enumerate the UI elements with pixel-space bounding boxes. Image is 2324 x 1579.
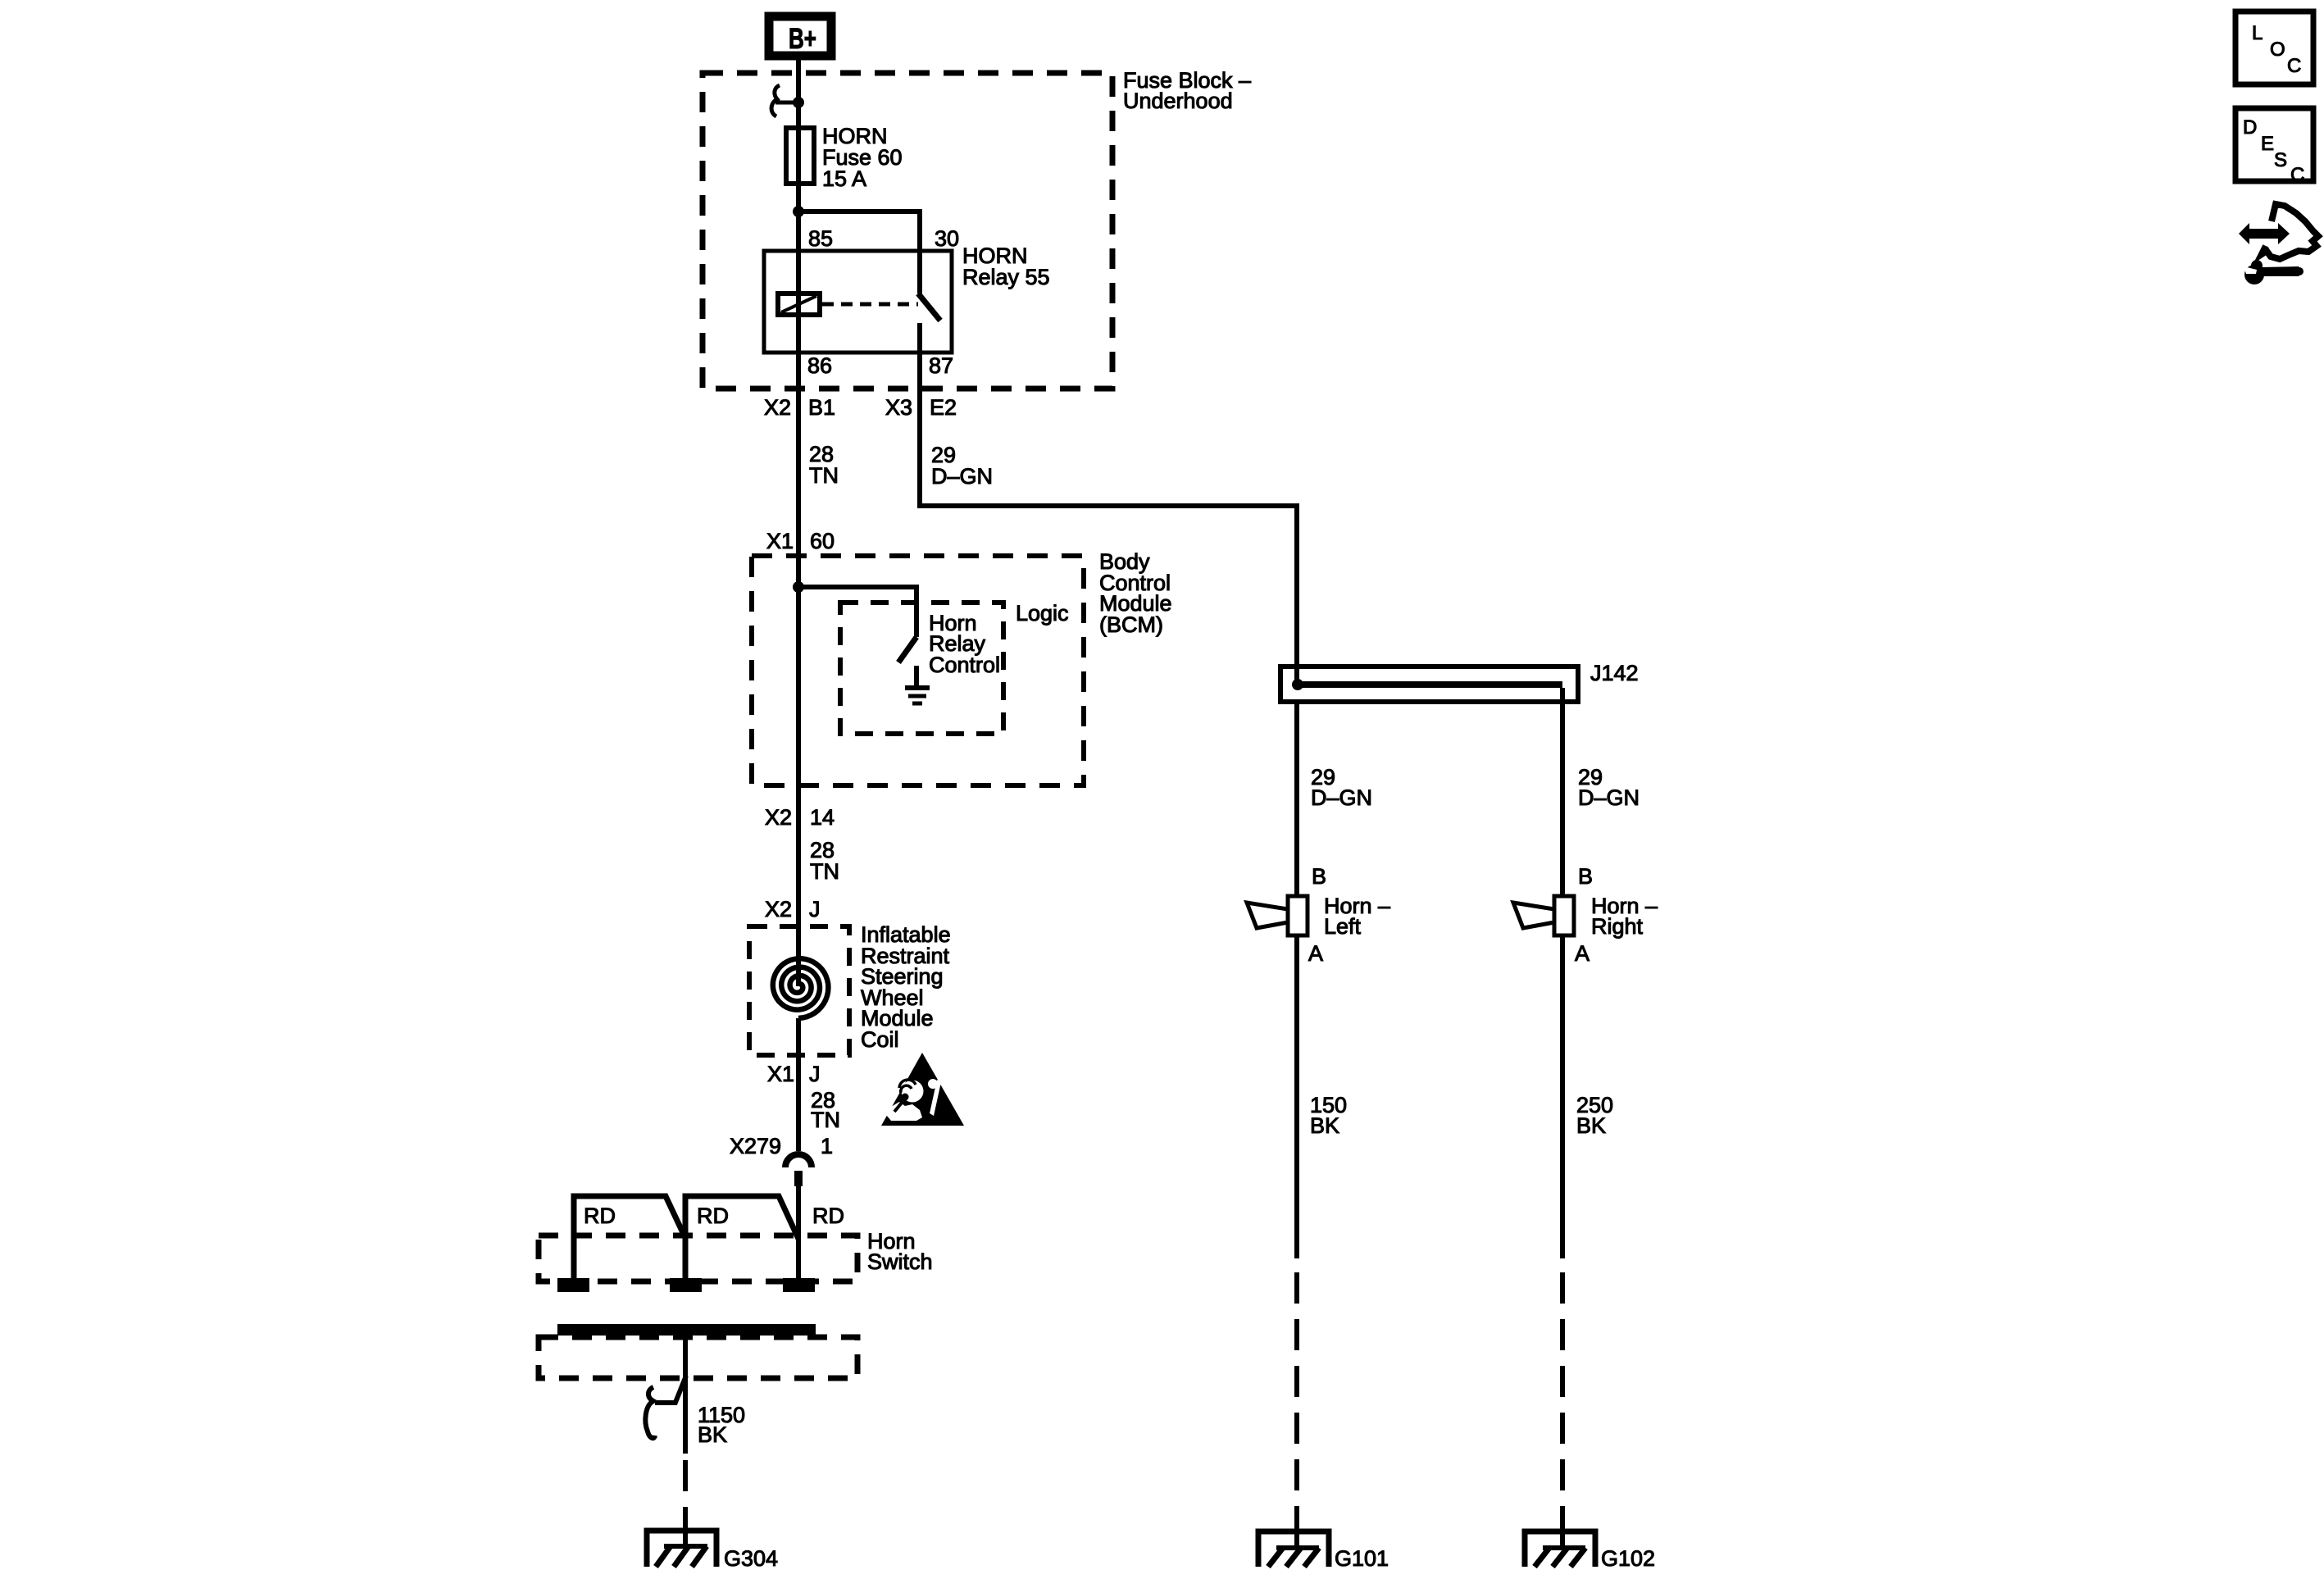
connector label X2 14 xyxy=(765,805,835,830)
wire label 1150 BK xyxy=(698,1403,745,1447)
service/repair connector icon xyxy=(2239,204,2318,284)
wire horn left to ground xyxy=(1294,935,1299,1258)
svg-text:X1: X1 xyxy=(767,1062,794,1086)
airbag caution triangle xyxy=(881,1053,964,1126)
clockspring spiral xyxy=(773,958,829,1018)
junction dot fuse output xyxy=(793,206,804,217)
wire label 29 D-GN xyxy=(931,443,993,489)
svg-text:RD: RD xyxy=(584,1204,616,1228)
svg-text:X279: X279 xyxy=(730,1134,781,1158)
logic ground xyxy=(905,688,930,703)
svg-text:Coil: Coil xyxy=(861,1027,899,1052)
wire label 28 TN xyxy=(811,1088,840,1132)
horn left symbol xyxy=(1247,896,1308,935)
wire label 28 TN xyxy=(809,442,839,488)
label J142 xyxy=(1590,661,1639,685)
svg-text:C: C xyxy=(2290,164,2304,186)
wire horn switch output xyxy=(683,1336,688,1454)
switch lower contact stub xyxy=(914,666,919,687)
connector label X2 J xyxy=(765,897,821,921)
ground G304 xyxy=(647,1516,716,1567)
fixed contact pads xyxy=(557,1278,589,1292)
svg-text:BK: BK xyxy=(698,1422,727,1447)
relay pin labels 85 / 30 xyxy=(808,226,959,251)
connector label X1 60 xyxy=(766,529,835,553)
svg-text:RD: RD xyxy=(697,1204,729,1228)
svg-text:B+: B+ xyxy=(789,23,816,55)
svg-text:G101: G101 xyxy=(1335,1546,1389,1571)
svg-text:G102: G102 xyxy=(1601,1546,1655,1571)
svg-text:X1: X1 xyxy=(766,529,794,553)
svg-text:B: B xyxy=(1312,864,1326,889)
svg-text:BK: BK xyxy=(1576,1113,1606,1138)
J142 internal bus bar xyxy=(1298,681,1562,688)
svg-text:D–GN: D–GN xyxy=(1578,785,1640,810)
relay coil lead pin85-pin86 xyxy=(796,251,801,353)
wire horn right to ground xyxy=(1560,935,1565,1258)
svg-text:TN: TN xyxy=(811,1108,840,1132)
label Logic xyxy=(1016,601,1069,626)
wire branch to relay pin 30 xyxy=(798,212,920,251)
svg-text:B1: B1 xyxy=(808,395,835,420)
horn switch contact ramp 2 xyxy=(685,1196,798,1281)
svg-text:14: 14 xyxy=(810,805,835,830)
label Horn - Right xyxy=(1591,894,1658,939)
horn right symbol xyxy=(1513,896,1574,935)
wire label 250 BK xyxy=(1576,1093,1613,1138)
wire through BCM xyxy=(796,556,801,785)
svg-text:L: L xyxy=(2252,22,2263,44)
splice/tap symbol on B+ feed xyxy=(771,85,798,116)
svg-text:(BCM): (BCM) xyxy=(1099,612,1163,637)
ground G101 xyxy=(1258,1513,1329,1567)
relay HORN Relay 55 box xyxy=(764,251,952,353)
pin label B (left horn) xyxy=(1312,864,1326,889)
svg-text:A: A xyxy=(1308,941,1323,966)
wire fuse to relay pin 85 xyxy=(796,184,801,251)
wire pin 86 down through connector X2-B1 xyxy=(796,353,801,556)
fuse HORN Fuse 60 15A xyxy=(796,130,801,212)
pin label B (right horn) xyxy=(1578,864,1593,889)
connector label X279 1 xyxy=(730,1134,833,1158)
relay actuation dashed link xyxy=(822,303,918,307)
terminal B+ xyxy=(769,16,831,56)
svg-text:D–GN: D–GN xyxy=(931,464,993,489)
horn switch dashed box xyxy=(539,1235,857,1281)
svg-text:D–GN: D–GN xyxy=(1311,785,1372,810)
pin label A (right horn) xyxy=(1575,941,1590,966)
connector X279 female half xyxy=(785,1154,812,1167)
wire J142 to horn right xyxy=(1560,688,1565,896)
contact plate dashed box xyxy=(539,1337,857,1378)
svg-text:Underhood: Underhood xyxy=(1123,89,1233,113)
wire pin 87 down through connector X3-E2 xyxy=(917,353,922,508)
svg-text:X3: X3 xyxy=(885,395,912,420)
svg-text:C: C xyxy=(2287,55,2301,77)
svg-text:85: 85 xyxy=(808,226,833,251)
svg-text:87: 87 xyxy=(929,353,953,378)
svg-text:86: 86 xyxy=(807,353,832,378)
svg-text:60: 60 xyxy=(810,529,835,553)
horn switch contact ramp 1 xyxy=(574,1196,685,1281)
svg-text:BK: BK xyxy=(1310,1113,1339,1138)
fuse block - underhood dashed box xyxy=(703,73,1112,389)
label Horn Relay Control xyxy=(929,611,1000,677)
movable contact plate bar xyxy=(557,1324,816,1336)
junction dot at tap xyxy=(793,97,804,108)
hidden wire to G102 xyxy=(1560,1272,1565,1515)
svg-text:RD: RD xyxy=(812,1204,844,1228)
hidden wire to G101 xyxy=(1294,1272,1299,1515)
wire id RD labels xyxy=(584,1204,844,1228)
svg-text:S: S xyxy=(2274,149,2287,171)
svg-text:J: J xyxy=(809,1062,821,1086)
connector X279 male terminal xyxy=(794,1171,803,1186)
wire label 29 D-GN (left) xyxy=(1311,765,1372,810)
wire coil to X279 xyxy=(796,1018,801,1151)
relay coil xyxy=(778,294,820,315)
svg-text:Right: Right xyxy=(1591,914,1644,939)
pin label A (left horn) xyxy=(1308,941,1323,966)
wire branch to horn relay control driver xyxy=(798,587,916,637)
svg-text:X2: X2 xyxy=(764,395,791,420)
hidden wire to G304 xyxy=(683,1460,688,1516)
DESC icon box xyxy=(2235,108,2313,186)
svg-text:E2: E2 xyxy=(930,395,957,420)
svg-text:G304: G304 xyxy=(724,1546,778,1571)
svg-text:TN: TN xyxy=(810,859,839,884)
relay fixed contact to pin 87 xyxy=(917,323,922,353)
svg-text:B: B xyxy=(1578,864,1593,889)
wire 29 D-GN over to splice pack J142 xyxy=(920,506,1297,685)
inflatable restraint steering wheel module coil dashed box xyxy=(749,926,849,1055)
label Horn - Left xyxy=(1324,894,1390,939)
wire X279 to horn switch xyxy=(796,1186,801,1285)
logic dashed box xyxy=(840,603,1003,734)
label Inflatable Restraint Steering Wheel Module Coil xyxy=(861,922,951,1052)
svg-text:X2: X2 xyxy=(765,897,792,921)
wire B+ feed down into fuse block xyxy=(796,60,801,130)
splice clip symbol xyxy=(645,1376,686,1438)
relay switch blade xyxy=(917,251,922,294)
svg-text:Logic: Logic xyxy=(1016,601,1069,626)
label HORN Relay 55 xyxy=(962,243,1050,289)
junction dot in BCM xyxy=(793,581,804,593)
wire label 28 TN xyxy=(810,838,839,884)
wire label 150 BK xyxy=(1310,1093,1347,1138)
svg-text:Left: Left xyxy=(1324,914,1362,939)
BCM dashed box xyxy=(752,556,1084,785)
svg-text:A: A xyxy=(1575,941,1590,966)
svg-text:1: 1 xyxy=(821,1134,833,1158)
label Horn Switch xyxy=(867,1229,933,1274)
svg-text:15 A: 15 A xyxy=(822,166,866,191)
svg-text:D: D xyxy=(2243,116,2257,139)
svg-text:Switch: Switch xyxy=(867,1249,933,1274)
label Body Control Module (BCM) xyxy=(1099,549,1172,637)
wire label 29 D-GN (right) xyxy=(1578,765,1640,810)
wire J142 to horn left xyxy=(1294,702,1299,896)
connector labels X2 B1 X3 E2 xyxy=(764,395,957,420)
svg-text:X2: X2 xyxy=(765,805,792,830)
svg-text:30: 30 xyxy=(935,226,959,251)
junction dot in J142 xyxy=(1292,679,1303,690)
label Fuse Block - Underhood xyxy=(1123,68,1251,113)
svg-text:TN: TN xyxy=(809,463,839,488)
svg-text:J: J xyxy=(809,897,821,921)
svg-text:J142: J142 xyxy=(1590,661,1639,685)
svg-text:E: E xyxy=(2261,133,2274,155)
wire BCM to clockspring xyxy=(796,785,801,986)
svg-text:Relay 55: Relay 55 xyxy=(962,265,1050,289)
ground G102 xyxy=(1525,1513,1595,1567)
splice pack J142 box xyxy=(1280,667,1578,702)
connector label X1 J xyxy=(767,1062,821,1086)
relay pin labels 86 / 87 xyxy=(807,353,953,378)
svg-text:Control: Control xyxy=(929,653,1000,677)
svg-text:O: O xyxy=(2270,39,2285,61)
LOC icon box xyxy=(2235,11,2313,84)
horn relay control switch blade xyxy=(898,637,916,662)
